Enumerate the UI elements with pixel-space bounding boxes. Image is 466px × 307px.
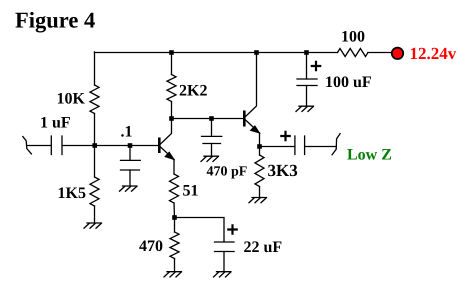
label + polarity 22uF [228,225,236,233]
resistor R 51 [170,174,179,203]
wire top supply rail right segment [368,52,393,54]
node Q2 emitter junction [257,144,262,149]
svg-text:12.24v: 12.24v [410,44,457,63]
input terminal squiggle [23,137,32,154]
wire 470pF bottom [211,144,213,157]
wire 470 to ground [174,259,176,272]
node junction to 470pF [209,116,214,121]
node emitter network junction [172,215,177,220]
svg-text:100: 100 [341,29,365,46]
label + polarity 100uF [312,62,320,70]
svg-text:470: 470 [139,238,163,255]
node junction input to .1 cap [128,143,133,148]
svg-text:2K2: 2K2 [179,83,207,100]
capacitor C .1 [121,160,141,170]
ground below 22uF [217,271,232,273]
transistor Q1 collector lead [161,119,172,145]
svg-text:Low Z: Low Z [347,147,392,164]
wire emitter node to output cap [260,146,295,148]
resistor R 2K2 [167,75,176,102]
node 12.24v supply terminal [392,48,403,59]
capacitor C 22uF [215,242,235,252]
wire 10K to input node [94,114,96,146]
wire emitter node to 22uF [175,218,225,243]
transistor Q1 emitter arrow [165,152,174,159]
svg-text:.1: .1 [121,124,133,141]
wire C1 to Q1 base [62,145,158,147]
output terminal squiggle [332,134,340,155]
wire emitter to 3K3 [259,147,261,156]
wire 1K5 to ground [94,206,96,223]
node junction rail to Q2 collector [254,50,259,55]
node junction top rail to 100uF [304,50,309,55]
label + polarity output cap [281,132,289,140]
capacitor C 1uF [51,136,62,155]
wire Q2 collector [246,53,257,117]
wire 100uF bottom [306,86,308,107]
svg-text:1 uF: 1 uF [40,115,71,132]
wire top supply rail left segment [95,52,338,54]
capacitor C 470pF [202,136,222,143]
svg-text:470 pF: 470 pF [207,165,248,180]
node junction rail to 2K2 [169,50,174,55]
svg-text:3K3: 3K3 [268,161,298,180]
svg-text:1K5: 1K5 [58,185,86,202]
wire emitter node to 470 [174,218,176,233]
ground below 100uF [299,105,314,107]
wire 100uF top [306,53,308,80]
svg-text:22 uF: 22 uF [244,239,283,256]
wire Q1 emitter to 51 [173,160,175,175]
wire 51 to emitter node [173,203,176,218]
wire Q2 emitter down [259,133,261,147]
ground below .1 cap [123,185,138,187]
wire 22uF to ground [223,252,225,272]
wire Q1 collector to Q2 base [172,118,244,120]
svg-text:100 uF: 100 uF [325,74,372,91]
wire input terminal to C1 [27,145,52,147]
ground below 470pF [204,155,219,157]
svg-text:10K: 10K [57,91,86,108]
capacitor C 100uF [297,79,317,86]
wire output cap to terminal [305,146,336,148]
svg-text:51: 51 [183,183,199,200]
transistor Q1 base bar [158,138,161,154]
wire .1 cap bottom [129,170,131,186]
capacitor C output [295,136,305,155]
wire .1 cap top [129,146,131,161]
wire 2K2 top [171,53,173,75]
wire 470pF top [211,119,213,137]
node input junction at 10K/1K5 [92,143,97,148]
ground below 470 [167,271,182,273]
resistor R 470 [170,232,179,259]
resistor R 3K3 [255,155,264,187]
wire left rail drop [94,52,96,85]
resistor R 100 [338,49,369,57]
transistor Q2 emitter lead [246,120,260,133]
resistor R 10K [90,85,99,114]
transistor Q2 base bar [243,111,246,127]
resistor R 1K5 [90,177,99,206]
transistor Q1 emitter lead [161,147,175,160]
node Q1 collector junction [169,116,174,121]
ground below 1K5 [87,222,102,224]
ground below 3K3 [252,197,267,199]
wire 2K2 bottom [171,102,173,119]
wire 3K3 to ground [259,187,261,198]
transistor Q2 emitter arrow [251,126,260,133]
wire input node to 1K5 [94,146,96,178]
svg-text:Figure 4: Figure 4 [15,8,95,33]
